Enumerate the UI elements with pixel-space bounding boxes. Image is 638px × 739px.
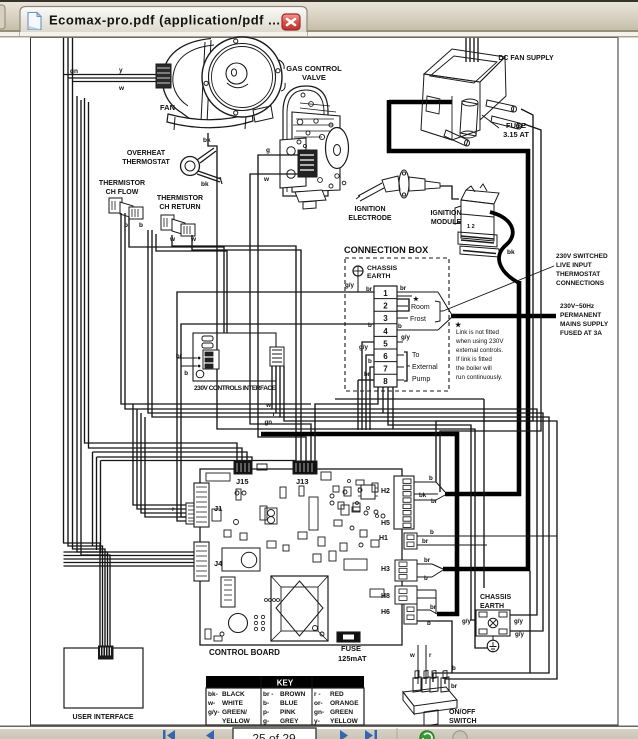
svg-text:r -: r - (314, 691, 321, 698)
svg-text:Ecomax-pro.pdf (application/pd: Ecomax-pro.pdf (application/pdf ... (49, 13, 280, 28)
svg-text:RED: RED (330, 691, 344, 698)
svg-text:CH FLOW: CH FLOW (106, 189, 139, 196)
svg-text:MAINS SUPPLY: MAINS SUPPLY (560, 321, 609, 328)
svg-text:the boiler will: the boiler will (456, 365, 492, 372)
svg-text:230V SWITCHED: 230V SWITCHED (556, 253, 608, 260)
svg-text:CHASSIS: CHASSIS (367, 265, 398, 272)
svg-text:b: b (368, 322, 372, 329)
svg-text:H1: H1 (379, 535, 388, 542)
svg-text:ELECTRODE: ELECTRODE (348, 215, 392, 222)
svg-text:CONNECTIONS: CONNECTIONS (556, 280, 605, 287)
svg-text:PERMANENT: PERMANENT (560, 312, 601, 319)
svg-text:YELLOW: YELLOW (222, 718, 251, 725)
svg-text:g/y: g/y (514, 618, 523, 625)
svg-text:2: 2 (383, 302, 388, 311)
svg-text:bk: bk (203, 137, 211, 144)
svg-text:br: br (451, 683, 458, 690)
svg-text:b: b (424, 575, 428, 582)
svg-text:CONNECTION BOX: CONNECTION BOX (344, 245, 429, 255)
svg-text:bk: bk (507, 249, 515, 256)
svg-text:g/y-: g/y- (208, 709, 220, 716)
svg-text:BLUE: BLUE (280, 700, 298, 707)
svg-text:SWITCH: SWITCH (449, 718, 477, 725)
svg-text:ORANGE: ORANGE (330, 700, 359, 707)
svg-text:g/y: g/y (515, 631, 524, 638)
svg-text:g: g (266, 147, 270, 154)
svg-text:IGNITION: IGNITION (430, 210, 461, 217)
svg-text:THERMOSTAT: THERMOSTAT (556, 271, 600, 278)
svg-text:3: 3 (383, 314, 388, 323)
svg-text:gn: gn (264, 419, 272, 426)
svg-text:THERMISTOR: THERMISTOR (157, 195, 203, 202)
svg-text:g/y: g/y (345, 282, 354, 289)
svg-text:H6: H6 (381, 609, 390, 616)
svg-text:CHASSIS: CHASSIS (480, 594, 511, 601)
svg-text:w-: w- (207, 700, 215, 707)
svg-text:FAN: FAN (160, 103, 175, 112)
svg-text:DC FAN SUPPLY: DC FAN SUPPLY (498, 55, 554, 62)
svg-text:125mAT: 125mAT (338, 654, 367, 663)
svg-text:EARTH: EARTH (367, 273, 391, 280)
svg-text:THERMOSTAT: THERMOSTAT (122, 159, 170, 166)
svg-text:b: b (368, 358, 372, 365)
svg-text:ON/OFF: ON/OFF (449, 709, 476, 716)
svg-text:b: b (139, 222, 143, 229)
svg-text:br: br (422, 538, 429, 545)
svg-text:b: b (429, 475, 433, 482)
svg-text:4: 4 (383, 327, 388, 336)
svg-text:GREEN: GREEN (330, 709, 353, 716)
svg-text:CONTROL BOARD: CONTROL BOARD (209, 648, 280, 657)
svg-text:p-: p- (263, 709, 269, 716)
svg-text:USER INTERFACE: USER INTERFACE (72, 714, 133, 721)
svg-text:b: b (452, 665, 456, 672)
svg-text:b: b (427, 620, 431, 627)
svg-text:w: w (263, 176, 270, 183)
svg-text:OVERHEAT: OVERHEAT (127, 150, 166, 157)
svg-text:8: 8 (383, 377, 388, 386)
svg-text:br: br (424, 557, 431, 564)
svg-text:KEY: KEY (277, 679, 294, 688)
svg-text:25 of 29: 25 of 29 (252, 732, 296, 739)
svg-text:PINK: PINK (280, 709, 296, 716)
svg-text:H8: H8 (381, 593, 390, 600)
svg-text:g/y: g/y (462, 618, 471, 625)
svg-text:EARTH: EARTH (480, 603, 504, 610)
svg-text:FUSE: FUSE (506, 121, 526, 130)
svg-text:MODULE: MODULE (431, 219, 462, 226)
svg-text:1: 1 (383, 289, 388, 298)
svg-text:WHITE: WHITE (222, 700, 244, 707)
svg-text:br: br (431, 498, 438, 505)
svg-text:g/y: g/y (401, 334, 410, 341)
svg-text:br -: br - (263, 691, 273, 698)
svg-text:GREEN/: GREEN/ (222, 709, 247, 716)
svg-text:H5: H5 (381, 520, 390, 527)
svg-text:run continuously.: run continuously. (456, 374, 503, 381)
svg-text:w: w (190, 236, 197, 243)
svg-text:or-: or- (314, 700, 323, 707)
svg-text:GAS CONTROL: GAS CONTROL (286, 64, 342, 73)
svg-text:when using 230V: when using 230V (455, 338, 504, 345)
svg-text:H2: H2 (381, 488, 390, 495)
svg-text:To: To (412, 352, 420, 359)
svg-text:y-: y- (314, 718, 320, 725)
svg-text:b: b (398, 323, 402, 330)
svg-text:5: 5 (383, 339, 388, 348)
svg-text:GREY: GREY (280, 718, 299, 725)
svg-text:gn-: gn- (314, 709, 324, 716)
svg-text:1 2: 1 2 (467, 224, 475, 230)
svg-text:w: w (118, 85, 125, 92)
svg-text:FUSED AT 3A: FUSED AT 3A (560, 330, 602, 337)
svg-text:bk: bk (201, 181, 209, 188)
svg-text:br: br (176, 353, 183, 360)
svg-text:b: b (430, 529, 434, 536)
svg-text:Frost: Frost (410, 316, 426, 323)
svg-text:b-: b- (263, 700, 269, 707)
svg-text:H3: H3 (381, 566, 390, 573)
svg-text:br: br (430, 604, 437, 611)
svg-text:J15: J15 (236, 477, 249, 486)
svg-text:g-: g- (263, 718, 269, 725)
svg-text:g/y: g/y (359, 344, 368, 351)
svg-text:★: ★ (455, 321, 462, 329)
svg-text:br: br (400, 285, 407, 292)
svg-text:bk-: bk- (208, 691, 218, 698)
svg-text:CH RETURN: CH RETURN (159, 204, 200, 211)
svg-text:w: w (409, 652, 415, 659)
svg-text:230V~50Hz: 230V~50Hz (560, 303, 595, 310)
svg-text:VALVE: VALVE (302, 73, 326, 82)
svg-text:7: 7 (383, 365, 388, 374)
svg-text:BROWN: BROWN (280, 691, 306, 698)
svg-text:J13: J13 (296, 477, 309, 486)
svg-text:If link is fitted: If link is fitted (456, 356, 492, 363)
svg-text:LIVE INPUT: LIVE INPUT (556, 262, 592, 269)
svg-text:w: w (265, 402, 271, 409)
svg-text:IGNITION: IGNITION (354, 206, 385, 213)
svg-text:External: External (412, 364, 438, 371)
svg-text:6: 6 (383, 352, 388, 361)
svg-text:FUSE: FUSE (341, 644, 361, 653)
svg-text:Room: Room (411, 304, 430, 311)
svg-text:THERMISTOR: THERMISTOR (99, 180, 145, 187)
svg-text:external controls.: external controls. (456, 347, 503, 354)
svg-text:bk: bk (419, 492, 427, 499)
svg-text:Pump: Pump (412, 376, 430, 383)
svg-text:230V CONTROLS INTERFACE: 230V CONTROLS INTERFACE (194, 385, 277, 392)
svg-text:b: b (184, 370, 188, 377)
svg-text:BLACK: BLACK (222, 691, 245, 698)
svg-text:YELLOW: YELLOW (330, 718, 359, 725)
svg-text:3.15 AT: 3.15 AT (503, 130, 529, 139)
svg-text:Link is not fitted: Link is not fitted (456, 329, 500, 336)
svg-text:gn: gn (70, 68, 78, 75)
svg-text:y: y (119, 67, 123, 74)
